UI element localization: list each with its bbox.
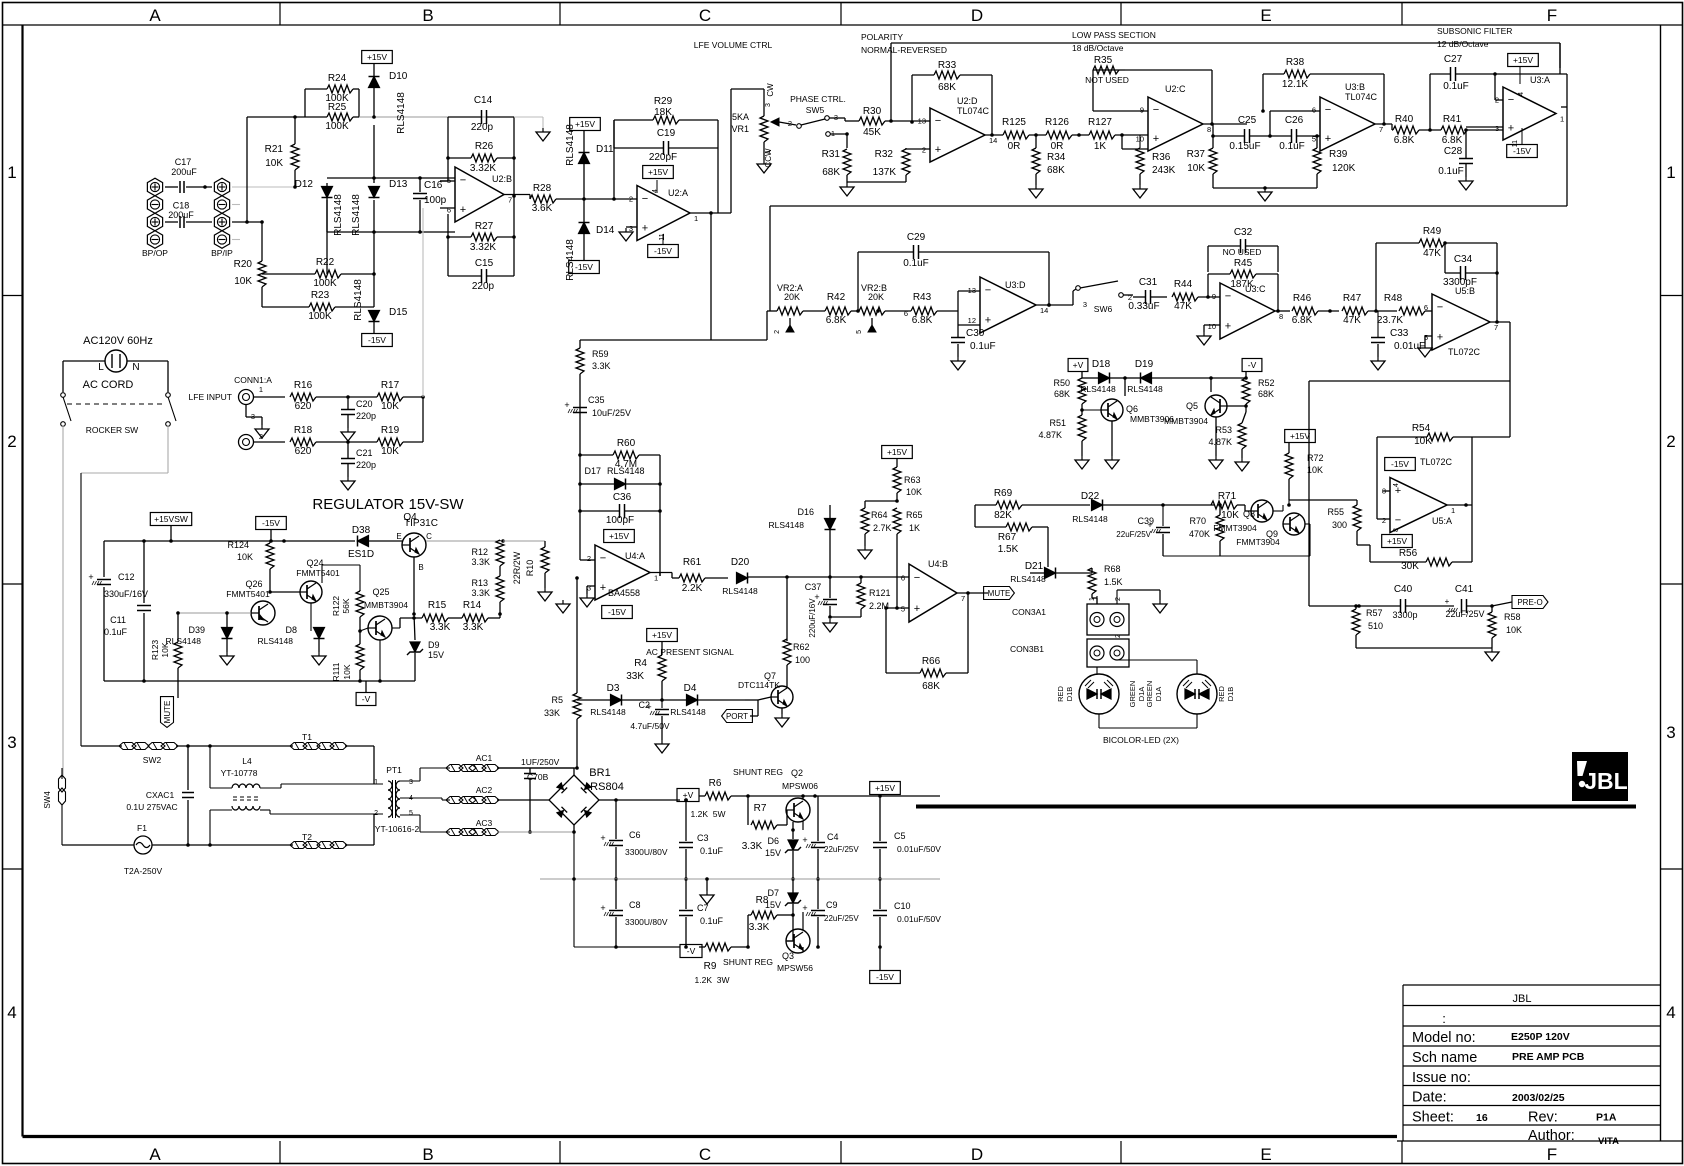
svg-text:R55: R55 [1327, 507, 1344, 517]
svg-text:10: 10 [1136, 135, 1144, 144]
svg-text:+: + [642, 222, 648, 234]
svg-text:R58: R58 [1504, 612, 1521, 622]
svg-text:D9: D9 [428, 640, 440, 650]
svg-text:0.33uF: 0.33uF [1128, 301, 1159, 312]
svg-text:2.2K: 2.2K [682, 583, 703, 594]
svg-text:R17: R17 [381, 380, 400, 391]
svg-text:SW6: SW6 [1094, 304, 1113, 314]
svg-text:R27: R27 [475, 221, 494, 232]
svg-text:BA4558: BA4558 [608, 588, 640, 598]
svg-text:SW5: SW5 [806, 105, 825, 115]
svg-text:6.8K: 6.8K [826, 315, 847, 326]
svg-text:VITA: VITA [1598, 1136, 1619, 1147]
svg-text:U4:B: U4:B [928, 559, 948, 569]
svg-text:D19: D19 [1135, 359, 1154, 370]
svg-text:3.3K: 3.3K [592, 361, 611, 371]
svg-text:E250P 120V: E250P 120V [1511, 1031, 1570, 1043]
svg-text:PHASE CTRL.: PHASE CTRL. [790, 94, 846, 104]
svg-text:D10: D10 [389, 71, 408, 82]
svg-text:10K: 10K [237, 552, 253, 562]
svg-text:4: 4 [1518, 92, 1525, 96]
svg-text:RLS4148: RLS4148 [353, 279, 364, 321]
svg-text:TL074C: TL074C [1345, 92, 1378, 102]
svg-text:R19: R19 [381, 425, 400, 436]
svg-text:3.3K: 3.3K [430, 622, 451, 633]
svg-text:22uF/25V: 22uF/25V [824, 845, 859, 854]
svg-text:10K: 10K [265, 158, 283, 169]
svg-text:20K: 20K [868, 292, 884, 302]
svg-text:-15V: -15V [262, 518, 280, 528]
svg-text:JBL: JBL [1584, 768, 1627, 794]
svg-text:470K: 470K [1189, 529, 1210, 539]
svg-text:-15V: -15V [876, 972, 894, 982]
svg-text:7: 7 [1494, 323, 1498, 332]
svg-text:3: 3 [1666, 723, 1675, 742]
svg-text:C: C [699, 6, 711, 25]
svg-text:Q3: Q3 [782, 951, 794, 961]
svg-text:+15V: +15V [575, 119, 595, 129]
svg-text:33K: 33K [626, 671, 644, 682]
svg-text:-15V: -15V [1391, 459, 1409, 469]
svg-text:−: − [1325, 104, 1331, 116]
svg-text:R45: R45 [1234, 258, 1253, 269]
svg-text:C17: C17 [175, 157, 192, 167]
svg-text:REGULATOR 15V-SW: REGULATOR 15V-SW [312, 496, 464, 513]
svg-text:2003/02/25: 2003/02/25 [1512, 1092, 1565, 1104]
svg-text:18K: 18K [654, 107, 672, 118]
svg-text:BP/IP: BP/IP [211, 248, 233, 258]
svg-text:-15V: -15V [368, 335, 386, 345]
svg-text:R15: R15 [428, 600, 447, 611]
svg-text:Issue no:: Issue no: [1412, 1070, 1471, 1086]
svg-text:FMMT3904: FMMT3904 [1236, 537, 1280, 547]
svg-text:U3:C: U3:C [1245, 284, 1266, 294]
svg-text:6.8K: 6.8K [1442, 135, 1463, 146]
svg-text:D1B: D1B [1226, 687, 1235, 702]
svg-text:Q2: Q2 [791, 768, 803, 778]
svg-text:R10: R10 [525, 560, 535, 577]
svg-text:R34: R34 [1047, 152, 1066, 163]
svg-text:1.2K 5W: 1.2K 5W [691, 809, 726, 819]
svg-text:D15: D15 [389, 307, 408, 318]
svg-text:47K: 47K [1423, 248, 1441, 259]
svg-text:U3:A: U3:A [1530, 75, 1550, 85]
svg-text:D3: D3 [607, 683, 620, 694]
svg-text:RLS4148: RLS4148 [258, 636, 294, 646]
svg-text:N: N [132, 362, 139, 373]
svg-text:C12: C12 [118, 572, 135, 582]
svg-text:GREEN: GREEN [1145, 681, 1154, 708]
svg-text:YT-10616-2: YT-10616-2 [375, 824, 420, 834]
svg-text:L: L [98, 362, 104, 373]
svg-text:MMBT3904: MMBT3904 [364, 600, 408, 610]
svg-text:R122: R122 [331, 596, 341, 617]
svg-text:3.3K: 3.3K [463, 622, 484, 633]
svg-text:3300U/80V: 3300U/80V [625, 917, 668, 927]
svg-text:R39: R39 [1329, 149, 1348, 160]
svg-text:T2A-250V: T2A-250V [124, 866, 163, 876]
svg-text:+: + [88, 572, 93, 582]
svg-text:C36: C36 [613, 492, 632, 503]
svg-text:10K: 10K [234, 276, 252, 287]
svg-text:0.01uF/50V: 0.01uF/50V [897, 844, 941, 854]
svg-text:R46: R46 [1293, 293, 1312, 304]
svg-text:3.3K: 3.3K [471, 588, 490, 598]
svg-text:10K: 10K [906, 487, 922, 497]
svg-text:P1A: P1A [1596, 1112, 1617, 1124]
svg-text:+: + [1325, 133, 1331, 145]
svg-text:BR1: BR1 [589, 767, 610, 779]
svg-text:R48: R48 [1384, 293, 1403, 304]
svg-text:3300p: 3300p [1392, 610, 1417, 620]
svg-text:R52: R52 [1258, 378, 1275, 388]
svg-text:D7: D7 [767, 888, 779, 898]
svg-text:R38: R38 [1286, 57, 1305, 68]
svg-text:R126: R126 [1045, 117, 1069, 128]
svg-text:Q6: Q6 [1126, 404, 1138, 414]
svg-text:RLS4148: RLS4148 [722, 586, 758, 596]
svg-text:PT1: PT1 [386, 765, 402, 775]
svg-text:100K: 100K [308, 311, 332, 322]
svg-text:C21: C21 [356, 448, 373, 458]
svg-text:TIP31C: TIP31C [404, 518, 438, 529]
svg-text:+: + [1508, 122, 1514, 134]
svg-text:U2:A: U2:A [668, 188, 688, 198]
svg-text:0.1uF: 0.1uF [970, 341, 996, 352]
svg-text:U3:D: U3:D [1005, 280, 1026, 290]
svg-text:ROCKER SW: ROCKER SW [86, 425, 138, 435]
svg-text:R30: R30 [863, 106, 882, 117]
svg-text:3.3K: 3.3K [749, 922, 770, 933]
svg-text:0.1uF: 0.1uF [1279, 141, 1305, 152]
svg-text:+15V: +15V [1387, 536, 1407, 546]
svg-text:+15V: +15V [887, 447, 907, 457]
svg-text:U2:C: U2:C [1165, 84, 1186, 94]
svg-text:R28: R28 [533, 183, 552, 194]
svg-text:6: 6 [1312, 106, 1316, 115]
svg-text:RED: RED [1217, 686, 1226, 702]
svg-text:GREEN: GREEN [1128, 681, 1137, 708]
svg-text:DTC114TK: DTC114TK [738, 680, 780, 690]
svg-text:+: + [1225, 321, 1231, 333]
svg-text:D13: D13 [389, 179, 408, 190]
svg-text:D20: D20 [731, 557, 750, 568]
svg-text:R35: R35 [1094, 55, 1113, 66]
svg-text:−: − [935, 115, 941, 127]
svg-text:U2:B: U2:B [492, 174, 512, 184]
svg-text:C40: C40 [1394, 584, 1413, 595]
svg-text:30K: 30K [1401, 561, 1419, 572]
svg-text:6: 6 [1424, 303, 1428, 312]
svg-text:1K: 1K [909, 523, 920, 533]
svg-text:R22: R22 [316, 257, 335, 268]
svg-text:R26: R26 [475, 141, 494, 152]
svg-text:SHUNT REG: SHUNT REG [733, 767, 783, 777]
svg-text:AC120V 60Hz: AC120V 60Hz [83, 335, 153, 347]
svg-text:R127: R127 [1088, 117, 1112, 128]
svg-text:1: 1 [1666, 163, 1675, 182]
svg-text:C41: C41 [1455, 584, 1474, 595]
svg-text:D39: D39 [188, 625, 205, 635]
svg-text:Sch name: Sch name [1412, 1050, 1477, 1066]
svg-text:1K: 1K [1094, 141, 1107, 152]
svg-text:0.01uF/50V: 0.01uF/50V [897, 914, 941, 924]
svg-text:22R/2W: 22R/2W [512, 551, 522, 584]
svg-text:2: 2 [788, 119, 792, 128]
svg-text:PORT: PORT [726, 712, 748, 721]
svg-text:+15V: +15V [1290, 431, 1310, 441]
svg-text:PRE AMP PCB: PRE AMP PCB [1512, 1051, 1585, 1063]
svg-text:B: B [422, 6, 433, 25]
svg-text:R7: R7 [754, 803, 767, 814]
svg-text:PRE-O: PRE-O [1517, 598, 1542, 607]
svg-text:45K: 45K [863, 127, 881, 138]
svg-text:R9: R9 [704, 961, 717, 972]
svg-text:100pF: 100pF [606, 515, 634, 526]
svg-text:CON3A1: CON3A1 [1012, 607, 1046, 617]
svg-text:-V: -V [1248, 360, 1257, 370]
svg-text:+: + [460, 204, 466, 216]
svg-text:3300U/80V: 3300U/80V [625, 847, 668, 857]
svg-text:6.8K: 6.8K [1292, 315, 1313, 326]
svg-text:4.7uF/50V: 4.7uF/50V [630, 721, 670, 731]
svg-text:-V: -V [687, 946, 696, 956]
svg-text:R31: R31 [822, 149, 841, 160]
svg-text:R29: R29 [654, 96, 673, 107]
svg-text:RLS4148: RLS4148 [351, 194, 362, 236]
svg-text:F1: F1 [137, 823, 147, 833]
svg-text:2: 2 [374, 810, 378, 817]
svg-text:56K: 56K [341, 598, 351, 613]
svg-text:1: 1 [7, 163, 16, 182]
svg-text::: : [1442, 1011, 1446, 1026]
svg-text:C37: C37 [805, 582, 822, 592]
svg-text:FMMT5401: FMMT5401 [226, 589, 270, 599]
svg-text:68K: 68K [922, 681, 940, 692]
svg-text:LFE VOLUME CTRL: LFE VOLUME CTRL [694, 40, 773, 50]
svg-text:SW2: SW2 [143, 755, 162, 765]
svg-text:TL072C: TL072C [1448, 347, 1481, 357]
svg-text:C16: C16 [424, 180, 443, 191]
svg-text:C33: C33 [1390, 328, 1409, 339]
svg-text:11: 11 [1512, 140, 1519, 147]
svg-text:100K: 100K [325, 121, 349, 132]
svg-text:D14: D14 [596, 225, 615, 236]
svg-text:R36: R36 [1152, 152, 1171, 163]
svg-text:5KA: 5KA [732, 112, 749, 122]
svg-text:C7: C7 [697, 903, 709, 913]
svg-text:3: 3 [1495, 124, 1499, 133]
svg-text:15V: 15V [765, 900, 781, 910]
svg-text:C26: C26 [1285, 115, 1304, 126]
svg-text:U2:D: U2:D [957, 96, 978, 106]
svg-text:R54: R54 [1412, 423, 1431, 434]
svg-text:R12: R12 [471, 547, 488, 557]
svg-text:6: 6 [901, 574, 905, 583]
svg-text:SW4: SW4 [43, 791, 52, 809]
svg-text:SUBSONIC FILTER: SUBSONIC FILTER [1437, 26, 1512, 36]
svg-text:ES1D: ES1D [348, 549, 374, 560]
svg-text:JBL: JBL [1513, 993, 1532, 1005]
svg-text:220p: 220p [472, 281, 495, 292]
svg-text:+: + [564, 400, 569, 410]
svg-text:+: + [1153, 133, 1159, 145]
svg-text:8: 8 [1207, 125, 1211, 134]
svg-text:CXAC1: CXAC1 [146, 790, 175, 800]
svg-text:R57: R57 [1366, 608, 1383, 618]
svg-text:18 dB/Octave: 18 dB/Octave [1072, 43, 1124, 53]
svg-text:1: 1 [374, 779, 378, 786]
svg-text:C8: C8 [629, 900, 641, 910]
svg-text:−: − [1508, 94, 1514, 106]
svg-text:12 dB/Octave: 12 dB/Octave [1437, 39, 1489, 49]
svg-text:D: D [971, 1145, 983, 1164]
svg-text:YT-10778: YT-10778 [221, 768, 258, 778]
svg-text:AC2: AC2 [476, 785, 493, 795]
svg-text:+V: +V [1073, 360, 1084, 370]
svg-text:F: F [1547, 6, 1557, 25]
svg-text:-V: -V [362, 694, 371, 704]
svg-text:0.1uF: 0.1uF [1443, 81, 1469, 92]
svg-text:T1: T1 [302, 732, 312, 742]
svg-text:1UF/250V: 1UF/250V [521, 757, 560, 767]
svg-text:CW: CW [766, 83, 775, 97]
svg-text:3: 3 [409, 779, 413, 786]
svg-text:-15V: -15V [608, 607, 626, 617]
svg-text:9: 9 [1212, 292, 1216, 301]
svg-text:+15V: +15V [648, 167, 668, 177]
svg-text:+: + [1445, 597, 1450, 606]
svg-text:D1B: D1B [1065, 687, 1074, 702]
svg-text:−: − [1395, 514, 1401, 526]
svg-text:R121: R121 [869, 588, 891, 598]
svg-text:243K: 243K [1152, 165, 1176, 176]
svg-text:5: 5 [901, 605, 905, 614]
svg-text:R63: R63 [904, 475, 921, 485]
svg-text:C18: C18 [173, 201, 190, 211]
svg-text:D6: D6 [767, 836, 779, 846]
svg-text:7: 7 [508, 196, 512, 205]
svg-text:RLS4148: RLS4148 [769, 520, 805, 530]
svg-text:R24: R24 [328, 73, 347, 84]
svg-text:Model no:: Model no: [1412, 1030, 1476, 1046]
svg-text:2: 2 [774, 330, 781, 334]
svg-text:1: 1 [654, 574, 658, 583]
svg-text:C25: C25 [1238, 115, 1257, 126]
svg-text:220pF: 220pF [649, 152, 677, 163]
svg-text:AC CORD: AC CORD [83, 379, 134, 391]
svg-text:R40: R40 [1395, 114, 1414, 125]
svg-text:-15V: -15V [575, 262, 593, 272]
svg-text:L4: L4 [242, 756, 252, 766]
svg-text:LFE INPUT: LFE INPUT [189, 392, 232, 402]
svg-text:C27: C27 [1444, 54, 1463, 65]
svg-text:AC1: AC1 [476, 753, 493, 763]
svg-text:4: 4 [1666, 1003, 1675, 1022]
svg-text:R43: R43 [913, 292, 932, 303]
svg-text:MUTE: MUTE [163, 701, 172, 724]
svg-text:Q26: Q26 [245, 579, 262, 589]
svg-text:R111: R111 [331, 662, 341, 681]
svg-text:A: A [149, 1145, 161, 1164]
svg-text:R66: R66 [922, 656, 941, 667]
svg-text:+: + [985, 315, 991, 327]
svg-text:FMMT5401: FMMT5401 [296, 568, 340, 578]
svg-text:D16: D16 [797, 507, 814, 517]
svg-text:68K: 68K [1054, 389, 1070, 399]
svg-text:R41: R41 [1443, 114, 1462, 125]
svg-text:Sheet:: Sheet: [1412, 1110, 1454, 1126]
svg-text:10K: 10K [381, 446, 399, 457]
svg-text:Rev:: Rev: [1528, 1110, 1558, 1126]
svg-text:22uF/25V: 22uF/25V [824, 914, 859, 923]
svg-text:0R: 0R [1051, 141, 1064, 152]
svg-text:C35: C35 [588, 395, 605, 405]
svg-text:RS804: RS804 [590, 781, 624, 793]
svg-text:6.8K: 6.8K [912, 315, 933, 326]
svg-text:8: 8 [1279, 312, 1283, 321]
svg-text:R21: R21 [265, 144, 284, 155]
svg-text:RLS4148: RLS4148 [1127, 384, 1163, 394]
svg-text:RLS4148: RLS4148 [565, 239, 576, 281]
svg-text:RLS4148: RLS4148 [166, 636, 202, 646]
svg-text:620: 620 [295, 446, 312, 457]
svg-text:10K: 10K [342, 664, 352, 679]
svg-text:137K: 137K [873, 167, 897, 178]
svg-text:−: − [600, 552, 606, 564]
svg-text:R61: R61 [683, 557, 702, 568]
svg-text:-15V: -15V [654, 246, 672, 256]
svg-text:R65: R65 [906, 510, 923, 520]
svg-text:8: 8 [1393, 528, 1400, 532]
svg-text:2: 2 [922, 146, 926, 155]
svg-text:3.3K: 3.3K [742, 841, 763, 852]
svg-text:4: 4 [652, 189, 659, 193]
svg-text:3.6K: 3.6K [532, 203, 553, 214]
svg-text:220p: 220p [356, 411, 376, 421]
svg-text:10K: 10K [381, 401, 399, 412]
svg-text:C28: C28 [1444, 146, 1463, 157]
svg-text:RLS4148: RLS4148 [1010, 574, 1046, 584]
svg-text:NO USED: NO USED [1223, 247, 1262, 257]
svg-text:D4: D4 [684, 683, 697, 694]
svg-text:R70: R70 [1189, 516, 1206, 526]
svg-text:Q25: Q25 [372, 587, 389, 597]
svg-text:R13: R13 [471, 578, 488, 588]
svg-text:Date:: Date: [1412, 1090, 1447, 1106]
svg-text:14: 14 [1040, 306, 1048, 315]
svg-text:20K: 20K [784, 292, 800, 302]
svg-text:POLARITY: POLARITY [861, 32, 903, 42]
svg-text:RLS4148: RLS4148 [607, 466, 645, 476]
svg-text:5: 5 [1312, 135, 1316, 144]
svg-text:6: 6 [447, 205, 451, 214]
svg-text:620: 620 [295, 401, 312, 412]
svg-text:R16: R16 [294, 380, 313, 391]
svg-text:CON3B1: CON3B1 [1010, 644, 1044, 654]
svg-text:E: E [1260, 6, 1271, 25]
svg-text:+15V: +15V [875, 783, 895, 793]
svg-text:RLS4148: RLS4148 [1072, 514, 1108, 524]
svg-text:D22: D22 [1081, 491, 1100, 502]
svg-text:+: + [914, 603, 920, 615]
svg-text:5: 5 [447, 176, 451, 185]
svg-text:100: 100 [795, 655, 810, 665]
svg-text:RLS4148: RLS4148 [396, 92, 407, 134]
svg-text:MMBT3904: MMBT3904 [1164, 416, 1208, 426]
svg-text:0.1uF: 0.1uF [903, 258, 929, 269]
svg-text:4: 4 [7, 1003, 16, 1022]
